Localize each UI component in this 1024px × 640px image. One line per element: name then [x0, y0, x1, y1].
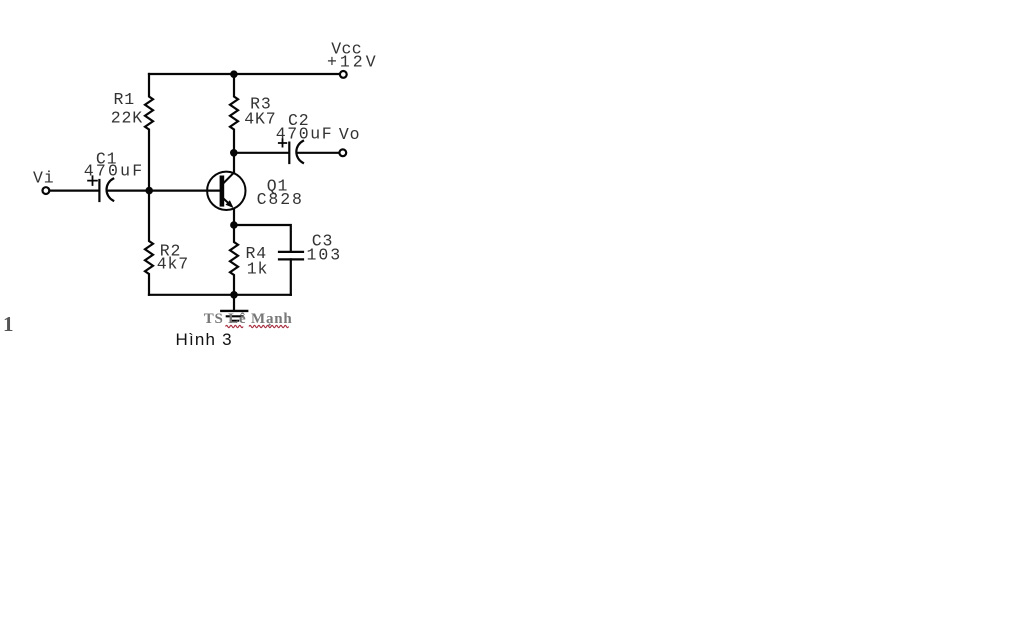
svg-text:Hình 3: Hình 3	[176, 330, 233, 349]
svg-text:1k: 1k	[247, 259, 269, 278]
svg-text:470uF: 470uF	[84, 161, 145, 180]
svg-text:4k7: 4k7	[157, 255, 189, 274]
svg-text:C828: C828	[257, 190, 304, 209]
svg-text:Vo: Vo	[339, 125, 361, 144]
svg-text:470uF: 470uF	[276, 124, 334, 143]
svg-text:1: 1	[3, 312, 14, 336]
svg-text:R1: R1	[114, 90, 136, 109]
svg-text:103: 103	[307, 245, 343, 264]
svg-text:TS Lê Mạnh: TS Lê Mạnh	[204, 311, 293, 327]
svg-text:4K7: 4K7	[244, 110, 276, 129]
svg-text:22K: 22K	[111, 109, 143, 128]
svg-text:Vi: Vi	[33, 168, 55, 187]
svg-text:+12V: +12V	[327, 52, 379, 71]
